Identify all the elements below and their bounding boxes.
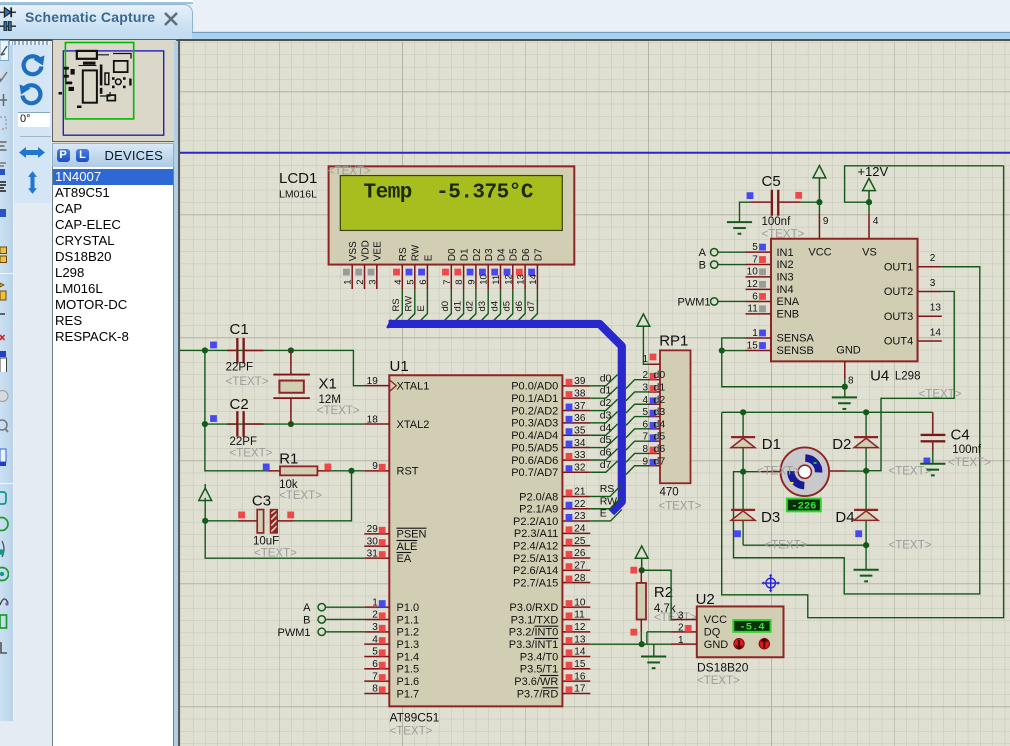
U1 pin 28 (P2.7/A15) stub <box>562 581 590 583</box>
wire DQ net to U1 P3.3 <box>590 643 641 645</box>
svg-text:1: 1 <box>343 279 354 284</box>
svg-text:R1: R1 <box>279 450 298 467</box>
left toolbar icon: terminal mode <box>0 489 9 511</box>
wire bridge top row <box>722 411 933 413</box>
svg-text:d6: d6 <box>514 300 525 311</box>
svg-text:d1: d1 <box>452 300 463 311</box>
svg-text:<TEXT>: <TEXT> <box>765 539 808 551</box>
LCD1 pin 3 stub <box>376 264 378 289</box>
svg-text:D1: D1 <box>762 435 781 452</box>
svg-text:5: 5 <box>405 279 416 284</box>
resistor R2 leads <box>640 570 642 583</box>
wire U1 P0.4 to bus (d4) <box>590 423 617 434</box>
RP1 pin 6 stub <box>649 427 661 429</box>
svg-text:d0: d0 <box>654 369 666 381</box>
resistor R2 body <box>637 582 646 619</box>
left toolbar icon: dark tick <box>0 311 9 333</box>
U1 pin 22 (P2.1/A9) stub <box>562 507 590 509</box>
junction VCC node <box>816 199 822 205</box>
U1 pin 27 state square <box>566 563 573 570</box>
U1 pin 34 (P0.5/AD5) stub <box>562 446 590 448</box>
svg-text:d2: d2 <box>465 300 476 311</box>
mirror vertical icon <box>26 169 39 196</box>
RP1 pin 6 state square <box>650 422 657 429</box>
LCD1 pin 11 state square <box>491 268 498 275</box>
LCD1 pin 8 state square <box>454 268 461 275</box>
svg-text:XTAL2: XTAL2 <box>397 418 430 430</box>
terminal PWM1 (U4 side) <box>711 297 718 304</box>
svg-text:P2.1/A9: P2.1/A9 <box>519 503 558 515</box>
svg-text:P0.2/AD2: P0.2/AD2 <box>511 405 558 417</box>
U4 pin 6 state square <box>759 293 766 300</box>
wire C1 row from view edge <box>179 349 205 351</box>
svg-text:1: 1 <box>752 327 758 338</box>
U2 pin 2 (DQ) stub <box>671 630 697 632</box>
U4 pin 7 state square <box>759 256 766 263</box>
U1 pin 8 state square <box>379 686 386 693</box>
svg-text:14: 14 <box>574 646 586 657</box>
svg-text:B: B <box>699 259 706 271</box>
U4 pin 11 (ENB) stub <box>746 312 772 314</box>
U1 pin 3 (P1.2) stub <box>364 630 389 632</box>
U4 pin 2 (OUT1) stub <box>918 265 942 267</box>
svg-text:VS: VS <box>862 246 877 258</box>
left toolbar icon: marker red x <box>0 332 9 354</box>
svg-text:P3.1/TXD: P3.1/TXD <box>511 614 559 626</box>
svg-text:C3: C3 <box>252 492 271 509</box>
diode D1 <box>742 412 744 471</box>
svg-text:D1: D1 <box>460 248 471 261</box>
U1 pin 32 (P0.7/AD7) stub <box>562 471 590 473</box>
U1 pin 22 state square <box>566 501 573 508</box>
minimap U1 <box>82 70 96 102</box>
grid minor <box>180 41 1010 746</box>
junction X1 bottom <box>288 420 294 426</box>
crystal X1 bottom lead <box>290 398 292 424</box>
wire LCD1 pin 14 to bus (d7) <box>526 289 538 325</box>
svg-text:P2.5/A13: P2.5/A13 <box>513 552 558 564</box>
LCD1 pin 10 stub <box>487 264 489 289</box>
svg-text:RW: RW <box>411 244 422 261</box>
svg-text:32: 32 <box>574 462 586 473</box>
svg-text:4: 4 <box>393 279 404 284</box>
svg-text:d1: d1 <box>600 384 612 396</box>
svg-text:E: E <box>423 254 434 261</box>
junction C2 row <box>202 420 208 426</box>
LCD1 pin 13 stub <box>524 264 526 289</box>
RP1 pin 3 stub <box>649 390 661 392</box>
U1 pin 5 state square <box>379 649 386 656</box>
svg-text:22PF: 22PF <box>230 436 258 448</box>
LCD1 pin 12 state square <box>504 268 511 275</box>
svg-text:d4: d4 <box>654 418 666 430</box>
crystal X1 bottom electrode <box>273 397 310 399</box>
svg-text:31: 31 <box>367 548 379 559</box>
tab icon capacitor <box>0 22 16 31</box>
minimap C1 <box>63 66 68 69</box>
svg-text:4: 4 <box>642 394 648 405</box>
svg-text:B: B <box>303 614 310 626</box>
svg-text:RST: RST <box>397 465 419 477</box>
U1 pin 6 (P1.5) stub <box>364 667 389 669</box>
minimap wires top <box>78 54 109 65</box>
LCD1 screen <box>340 175 562 230</box>
svg-text:<TEXT>: <TEXT> <box>889 539 932 551</box>
wire LCD1 pin 13 to bus (d6) <box>513 289 525 325</box>
svg-text:d3: d3 <box>600 409 612 421</box>
left toolbar icon: part mode <box>0 290 9 312</box>
left toolbar icon: wire tool <box>0 66 9 88</box>
wire U1 P0.3 to bus (d3) <box>590 411 617 422</box>
U4 pin 10 state square <box>759 268 766 275</box>
svg-text:DQ: DQ <box>704 626 721 638</box>
svg-text:<TEXT>: <TEXT> <box>697 674 740 686</box>
C2 state square (blue) <box>210 415 217 422</box>
capacitor C2 plates <box>236 411 238 437</box>
svg-text:17: 17 <box>574 683 586 694</box>
U1 pin 10 (P3.0/RXD) stub <box>562 606 590 608</box>
U1 pin 14 state square <box>566 649 573 656</box>
svg-text:SENSB: SENSB <box>777 345 814 357</box>
U1 pin 26 state square <box>566 550 573 557</box>
svg-text:4: 4 <box>873 216 879 227</box>
svg-text:2: 2 <box>355 279 366 284</box>
svg-text:PWM1: PWM1 <box>678 296 711 308</box>
resistor R1 body <box>280 466 317 475</box>
tab title <box>25 9 165 25</box>
svg-text:D5: D5 <box>509 248 520 261</box>
svg-text:ENA: ENA <box>777 296 800 308</box>
power arrow above R2 <box>635 545 648 557</box>
svg-text:21: 21 <box>574 486 586 497</box>
svg-text:15: 15 <box>574 658 586 669</box>
junction bridge bottom right <box>863 542 869 548</box>
U1 pin 31 (EA) stub <box>364 557 389 559</box>
svg-text:22: 22 <box>574 498 586 509</box>
rotate anticlockwise icon <box>19 82 45 106</box>
svg-text:5: 5 <box>642 407 648 418</box>
U1 pin 23 (P2.2/A10) stub <box>562 519 590 521</box>
U1 pin 4 state square <box>379 637 386 644</box>
motor shaft <box>798 465 811 478</box>
diode D3 <box>742 471 744 545</box>
tab bar lower strip <box>0 32 1010 34</box>
wire U1 P0.5 to bus (d5) <box>590 436 617 447</box>
LCD1 pin 14 state square <box>528 268 535 275</box>
svg-text:9: 9 <box>642 456 648 467</box>
left toolbar icon: label tool <box>0 137 9 159</box>
capacitor C2 leads <box>227 423 236 425</box>
svg-text:12: 12 <box>747 279 759 290</box>
junction +12V node <box>866 199 872 205</box>
top window strip <box>0 0 1010 31</box>
minimap sheet border (blue rect) <box>63 50 163 134</box>
svg-text:25: 25 <box>574 535 586 546</box>
svg-text:26: 26 <box>574 548 586 559</box>
junction GND/SENS <box>842 383 848 389</box>
wire bridge bottom row <box>743 544 866 546</box>
svg-text:EA: EA <box>397 552 412 564</box>
tab close X <box>161 9 181 29</box>
svg-text:P0.6/AD6: P0.6/AD6 <box>511 454 558 466</box>
svg-text:A: A <box>699 246 707 258</box>
svg-text:P1.1: P1.1 <box>397 614 420 626</box>
svg-text:<TEXT>: <TEXT> <box>226 375 269 387</box>
svg-text:<TEXT>: <TEXT> <box>230 447 273 459</box>
svg-text:P1.5: P1.5 <box>397 663 420 675</box>
wire U1 P0.7 to bus (d7) <box>590 460 617 471</box>
terminal PWM1 (U1 side) <box>318 628 325 635</box>
svg-text:<TEXT>: <TEXT> <box>948 456 991 468</box>
svg-text:14: 14 <box>930 327 942 338</box>
svg-text:IN1: IN1 <box>777 246 794 258</box>
left toolbar separators <box>0 273 13 274</box>
left toolbar icon: probe mode <box>0 591 9 613</box>
wire OUT1 to motor left (long path) <box>734 266 980 593</box>
wire LCD1 pin 7 to bus (d0) <box>440 289 452 325</box>
data bus (blue) <box>387 319 391 327</box>
svg-text:AT89C51: AT89C51 <box>390 710 440 724</box>
svg-text:15: 15 <box>747 340 759 351</box>
svg-text:P1.2: P1.2 <box>397 626 420 638</box>
svg-text:8: 8 <box>372 683 378 694</box>
svg-text:3: 3 <box>642 382 648 393</box>
U4 pin 8 (GND) lead <box>844 361 846 379</box>
svg-text:P3.2/INT0: P3.2/INT0 <box>509 626 559 638</box>
svg-text:7: 7 <box>442 279 453 284</box>
svg-text:11: 11 <box>574 609 585 620</box>
svg-text:LM016L: LM016L <box>279 188 317 200</box>
terminal B (U4 side) <box>711 260 718 267</box>
svg-text:34: 34 <box>574 437 586 448</box>
svg-text:VSS: VSS <box>348 240 359 260</box>
svg-text:D6: D6 <box>521 248 532 261</box>
svg-text:P3.4/T0: P3.4/T0 <box>520 651 559 663</box>
mirror horizontal icon <box>18 144 46 161</box>
svg-text:U2: U2 <box>696 590 715 607</box>
left toolbar icon: text tool <box>0 180 9 202</box>
svg-text:100nf: 100nf <box>762 215 792 227</box>
U1 pin 37 (P0.2/AD2) stub <box>562 409 590 411</box>
junction X1 top <box>288 347 294 353</box>
svg-text:d4: d4 <box>600 421 612 433</box>
svg-text:C4: C4 <box>951 426 970 443</box>
wire bus to RP1 pin 4 (d2) <box>626 404 649 413</box>
wire R2 bottom to DQ net <box>640 632 642 644</box>
junction C3 left <box>202 517 208 523</box>
left toolbar icon: arrow yellow <box>0 279 9 301</box>
junction motor right <box>863 467 869 473</box>
svg-text:IN2: IN2 <box>777 259 794 271</box>
svg-text:8: 8 <box>642 443 648 454</box>
svg-text:<TEXT>: <TEXT> <box>654 611 697 623</box>
svg-text:DS18B20: DS18B20 <box>697 660 749 674</box>
minimap R1 <box>65 81 72 84</box>
C3 state squares <box>238 511 245 518</box>
svg-text:470: 470 <box>660 486 679 498</box>
ground under U4 pin 8 <box>832 396 857 398</box>
U1 pin 39 state square <box>566 378 573 385</box>
svg-text:d5: d5 <box>654 430 666 442</box>
svg-text:12: 12 <box>503 274 514 285</box>
svg-text:d1: d1 <box>654 381 666 393</box>
left toolbar icon: component mode <box>0 245 9 267</box>
U2 up button <box>734 638 744 648</box>
grid major <box>180 41 1010 746</box>
wire +12V rail start <box>845 165 1004 201</box>
svg-text:L298: L298 <box>895 370 921 382</box>
ground under U2 <box>641 655 666 657</box>
wire LCD1 pin 5 to bus (RW) <box>403 289 415 325</box>
wire bus to RP1 pin 8 (d6) <box>626 453 649 462</box>
minimap terminal labels <box>58 92 62 95</box>
svg-text:100nf: 100nf <box>952 443 982 455</box>
left toolbar icon: 2d graphics <box>0 639 9 661</box>
LCD1 pin 4 stub <box>401 264 403 289</box>
wire bus to RP1 pin 6 (d4) <box>626 428 649 437</box>
terminal A (U4 side) <box>711 248 718 255</box>
svg-text:P2.7/A15: P2.7/A15 <box>513 577 558 589</box>
splitter <box>174 41 179 746</box>
svg-text:C1: C1 <box>230 320 249 337</box>
svg-text:<TEXT>: <TEXT> <box>317 404 360 416</box>
R1 state squares <box>263 463 270 470</box>
svg-text:38: 38 <box>574 388 586 399</box>
svg-text:d6: d6 <box>654 442 666 454</box>
svg-text:<TEXT>: <TEXT> <box>390 725 433 737</box>
crystal X1 top electrode <box>273 373 310 375</box>
RP1 pin 5 state square <box>650 409 657 416</box>
wire LCD1 pin 11 to bus (d4) <box>489 289 501 325</box>
wire LCD1 pin 12 to bus (d5) <box>501 289 513 325</box>
left toolbar icon: marker blue <box>0 207 9 229</box>
svg-text:P2.4/A12: P2.4/A12 <box>513 540 558 552</box>
wire bus to RP1 pin 5 (d3) <box>626 416 649 425</box>
svg-text:d0: d0 <box>600 372 612 384</box>
svg-text:D4: D4 <box>835 508 854 525</box>
minimap D2 <box>123 77 126 80</box>
P button <box>57 149 70 162</box>
minimap U4 <box>113 60 127 71</box>
C5 state squares <box>747 192 754 199</box>
wire C1 to X1 top <box>205 349 291 351</box>
svg-text:-5.4: -5.4 <box>739 621 764 633</box>
capacitor C3 left plate <box>257 509 263 532</box>
sheet border (blue) <box>180 151 1010 153</box>
svg-text:P2.2/A10: P2.2/A10 <box>513 515 558 527</box>
capacitor C4 lead top <box>932 412 934 433</box>
devices list <box>52 167 175 746</box>
capacitor C4 plates <box>921 433 946 435</box>
wire GND net to U2 <box>642 643 671 645</box>
svg-text:P0.0/AD0: P0.0/AD0 <box>511 380 558 392</box>
svg-text:39: 39 <box>574 376 586 387</box>
wire U1 P0.1 to bus (d1) <box>590 386 617 397</box>
minimap C3 <box>68 86 74 90</box>
LCD1 pin 14 stub <box>536 264 538 289</box>
svg-text:VCC: VCC <box>704 614 727 626</box>
capacitor C5 leads <box>750 201 771 203</box>
svg-text:7: 7 <box>752 254 758 265</box>
svg-text:12: 12 <box>574 622 586 633</box>
U1 pin 16 state square <box>566 674 573 681</box>
svg-text:P0.5/AD5: P0.5/AD5 <box>511 442 558 454</box>
wire LCD1 pin 4 to bus (RS) <box>391 289 403 325</box>
LCD1 pin 1 state square <box>343 268 350 275</box>
svg-text:P1.0: P1.0 <box>397 601 420 613</box>
U4 pin 12 (IN4) stub <box>746 288 772 290</box>
U1 pin 17 state square <box>566 686 573 693</box>
ground under bridge <box>854 568 879 570</box>
svg-text:RP1: RP1 <box>659 332 688 349</box>
U1 XTAL1 clock marker <box>390 380 396 391</box>
svg-text:d6: d6 <box>600 446 612 458</box>
svg-text:D4: D4 <box>496 248 507 261</box>
U1 pin 33 state square <box>566 452 573 459</box>
svg-text:PSEN: PSEN <box>397 528 427 540</box>
svg-text:<TEXT>: <TEXT> <box>659 500 702 512</box>
LCD1 pin 11 stub <box>500 264 502 289</box>
U1 pin 2 (P1.1) stub <box>364 618 389 620</box>
origin marker (blue crosshair) <box>761 573 780 592</box>
svg-text:d4: d4 <box>489 300 500 311</box>
wire LCD1 pin 8 to bus (d1) <box>452 289 464 325</box>
U1 pin 18 (XTAL2) stub <box>364 423 389 425</box>
U4 pin 11 state square <box>759 305 766 312</box>
wire SENSB <box>722 349 746 351</box>
left toolbar icon: selection tool (pressed) <box>0 40 9 62</box>
svg-text:RW: RW <box>600 495 617 507</box>
wire U1 P2.1 to bus (RW) <box>590 496 622 508</box>
motor rotor arcs <box>805 457 818 472</box>
junction R2 top <box>639 567 645 573</box>
left toolbar icon: disabled tool <box>0 388 9 410</box>
svg-text:P3.3/INT1: P3.3/INT1 <box>509 638 559 650</box>
U1 pin 1 (P1.0) stub <box>364 606 389 608</box>
U1 pin 24 (P2.3/A11) stub <box>562 532 590 534</box>
U4 pin 12 state square <box>759 280 766 287</box>
tab bar active tab <box>0 4 193 33</box>
U1 pin 27 (P2.6/A14) stub <box>562 569 590 571</box>
LCD1 pin 13 state square <box>516 268 523 275</box>
minimap panel <box>52 39 177 142</box>
minimap +12V wire <box>113 53 131 58</box>
U4 pin 3 (OUT2) stub <box>918 290 942 292</box>
svg-text:37: 37 <box>574 400 586 411</box>
left toolbar icon: generator mode <box>0 565 9 587</box>
wire C5 right to VCC node <box>801 201 820 203</box>
LCD1 pin 10 state square <box>479 268 486 275</box>
svg-text:P0.1/AD1: P0.1/AD1 <box>511 392 558 404</box>
svg-text:P3.7/RD: P3.7/RD <box>517 688 559 700</box>
wire LCD1 pin 9 to bus (d2) <box>464 289 476 325</box>
minimap wire bottom <box>100 92 110 96</box>
svg-text:P1.4: P1.4 <box>397 651 420 663</box>
left toolbar icon: virtual instrument <box>0 613 9 635</box>
U4 pin 7 (IN2) stub <box>746 263 772 265</box>
minimap D3 <box>112 85 115 88</box>
wire to bridge ground <box>865 545 867 569</box>
capacitor C3 right plate (polarized) <box>270 509 277 532</box>
svg-text:7: 7 <box>372 671 378 682</box>
svg-text:ENB: ENB <box>777 308 800 320</box>
svg-text:33: 33 <box>574 450 586 461</box>
svg-text:d5: d5 <box>600 434 612 446</box>
RP1 pin 3 state square <box>650 385 657 392</box>
U1 pin 15 (P3.5/T1) stub <box>562 667 590 669</box>
svg-text:29: 29 <box>367 524 379 535</box>
U1 pin 36 (P0.3/AD3) stub <box>562 421 590 423</box>
